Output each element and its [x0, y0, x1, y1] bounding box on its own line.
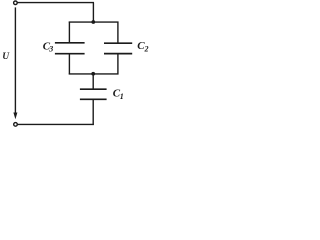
wire left branch lower lead: [68, 54, 70, 75]
terminal top-left: [14, 1, 18, 5]
svg-text:2: 2: [144, 45, 149, 54]
wire bottom rail: [69, 73, 119, 75]
svg-text:3: 3: [48, 45, 53, 54]
capacitor C3: [55, 43, 85, 54]
wire node B to C1: [92, 74, 94, 90]
capacitor C1: [80, 89, 107, 99]
node B junction dot (bottom): [91, 72, 95, 76]
wire left branch upper lead: [68, 22, 70, 44]
wire top horizontal: [17, 2, 94, 4]
label C1: [113, 88, 124, 101]
node A junction dot (top): [91, 20, 95, 24]
wire right branch lower lead: [117, 54, 119, 75]
svg-text:1: 1: [120, 92, 124, 101]
wire top rail: [69, 21, 119, 23]
wire U voltage arrow shaft: [14, 7, 16, 113]
wire drop to node A: [92, 3, 94, 23]
wire bottom horizontal: [18, 123, 94, 125]
wire right branch upper lead: [117, 22, 119, 44]
svg-text:U: U: [2, 52, 10, 62]
wire C1 down lead: [92, 99, 94, 125]
label C3: [43, 40, 53, 53]
terminal bottom-left: [14, 123, 18, 127]
label C2: [137, 40, 148, 54]
U voltage arrowhead: [13, 113, 17, 120]
capacitor C2: [104, 43, 132, 53]
